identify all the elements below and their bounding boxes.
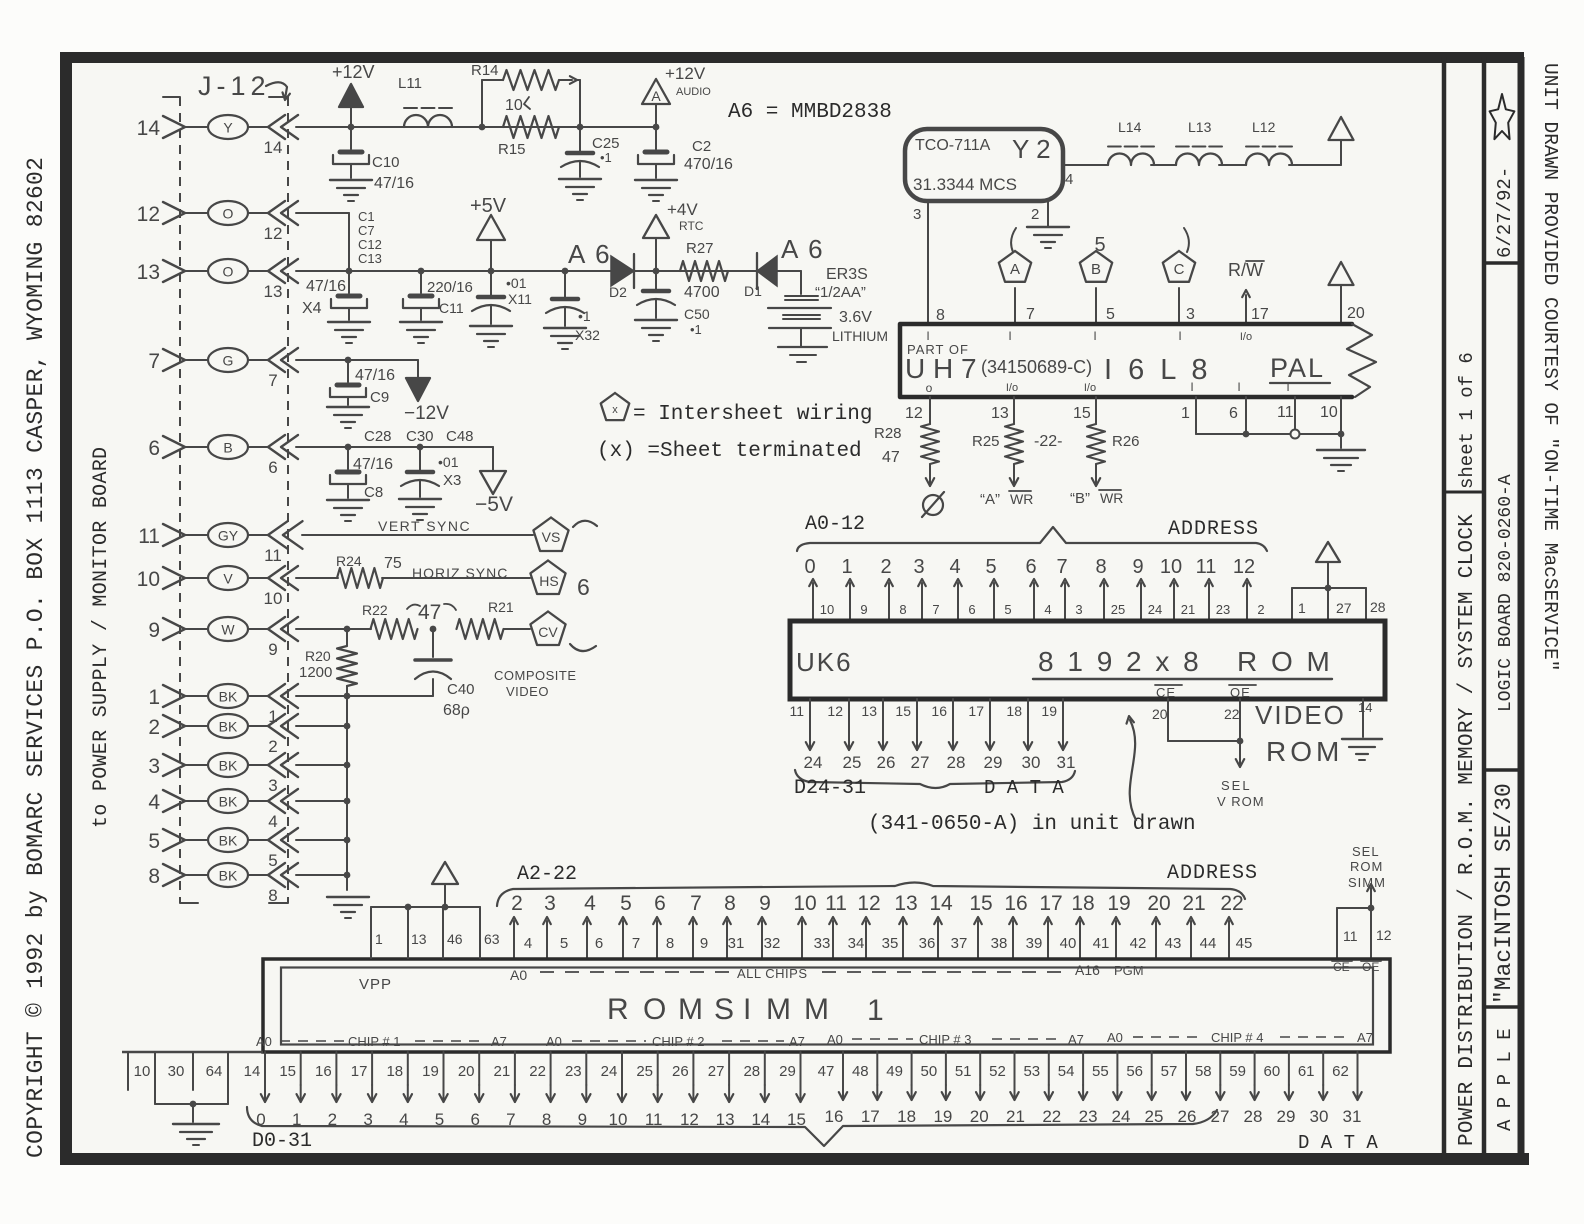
- svg-text:A0: A0: [546, 1034, 562, 1049]
- svg-text:V ROM: V ROM: [1217, 794, 1265, 809]
- svg-text:18: 18: [1006, 703, 1022, 719]
- svg-text:C30: C30: [406, 428, 434, 445]
- svg-text:23: 23: [565, 1063, 582, 1080]
- svg-text:17: 17: [1039, 892, 1062, 915]
- wire pin13 rail: [296, 270, 800, 272]
- svg-text:1200: 1200: [299, 664, 332, 681]
- ground BK bus: [327, 896, 369, 898]
- svg-text:OE: OE: [1230, 685, 1251, 700]
- svg-text:VERT SYNC: VERT SYNC: [378, 518, 471, 534]
- svg-text:38: 38: [991, 935, 1008, 952]
- svg-text:12: 12: [1376, 927, 1392, 943]
- svg-text:1: 1: [1181, 405, 1190, 422]
- svg-text:35: 35: [882, 935, 899, 952]
- svg-text:A7: A7: [789, 1034, 805, 1049]
- svg-text:21: 21: [1181, 602, 1195, 617]
- svg-text:O: O: [223, 264, 234, 280]
- capacitor C11 220/16: [418, 268, 425, 275]
- svg-text:C11: C11: [439, 300, 464, 316]
- svg-text:VIDEO: VIDEO: [1255, 700, 1346, 730]
- svg-text:A 6: A 6: [781, 234, 825, 264]
- svg-text:ROM: ROM: [1266, 736, 1343, 767]
- svg-text:4: 4: [1044, 602, 1051, 617]
- paren right: [1184, 228, 1189, 252]
- svg-text:ALL CHIPS: ALL CHIPS: [737, 966, 808, 981]
- svg-text:21: 21: [1006, 1107, 1025, 1126]
- svg-text:44: 44: [1200, 935, 1217, 952]
- power flag -12V: [417, 360, 419, 378]
- svg-text:40: 40: [1060, 935, 1077, 952]
- SIMM data pin 51: [979, 1052, 981, 1085]
- svg-text:SEL: SEL: [1221, 778, 1252, 793]
- svg-text:CV: CV: [538, 624, 558, 640]
- svg-text:BK: BK: [219, 794, 238, 810]
- svg-text:I/o: I/o: [1240, 331, 1252, 343]
- svg-text:20: 20: [1147, 892, 1170, 915]
- capacitor C40 68p: [432, 629, 434, 657]
- svg-text:4: 4: [949, 556, 960, 578]
- svg-text:R20: R20: [305, 648, 331, 664]
- ROM SIMM 1 inner box: [281, 968, 1373, 1045]
- svg-text:+12V: +12V: [665, 64, 706, 83]
- svg-text:4700: 4700: [684, 284, 720, 301]
- power flag PAL pin 20: [1329, 262, 1354, 285]
- svg-text:22: 22: [1220, 892, 1243, 915]
- svg-text:1: 1: [148, 686, 160, 709]
- svg-text:10: 10: [137, 568, 160, 591]
- svg-text:9: 9: [148, 619, 160, 642]
- svg-text:53: 53: [1023, 1063, 1040, 1080]
- phase symbol: [923, 495, 943, 515]
- svg-text:25: 25: [843, 753, 862, 772]
- intersheet pentagon HS: [530, 561, 565, 595]
- svg-text:R15: R15: [498, 141, 526, 158]
- svg-text:20: 20: [970, 1107, 989, 1126]
- svg-text:0: 0: [804, 556, 815, 578]
- svg-text:14: 14: [137, 117, 161, 140]
- svg-text:16: 16: [825, 1107, 844, 1126]
- svg-text:+12V: +12V: [332, 62, 375, 82]
- svg-text:D A T A: D A T A: [1298, 1132, 1378, 1154]
- svg-text:CHIP # 1: CHIP # 1: [348, 1034, 401, 1049]
- wire BK pin: [296, 764, 347, 766]
- svg-text:L14: L14: [1118, 119, 1142, 135]
- svg-text:COPYRIGHT © 1992 by BOMARC S: COPYRIGHT © 1992 by BOMARC SERVICES P.O.…: [23, 157, 49, 1158]
- svg-text:“1/2AA”: “1/2AA”: [815, 284, 866, 301]
- svg-text:C40: C40: [447, 681, 475, 698]
- svg-text:8: 8: [666, 935, 674, 952]
- svg-text:31: 31: [1343, 1107, 1362, 1126]
- svg-text:7: 7: [932, 602, 939, 617]
- svg-text:U H 7: U H 7: [905, 353, 977, 384]
- SIMM data pin 25: [657, 1052, 659, 1085]
- svg-text:24: 24: [804, 753, 823, 772]
- svg-text:A0: A0: [256, 1034, 272, 1049]
- capacitor X11 .01: [490, 271, 492, 295]
- svg-text:9: 9: [268, 640, 277, 659]
- arc after VS: [573, 521, 597, 527]
- svg-text:2: 2: [880, 556, 891, 578]
- star mark: [1490, 94, 1515, 139]
- svg-text:A P P L E: A P P L E: [1494, 1028, 1516, 1131]
- svg-text:56: 56: [1126, 1063, 1143, 1080]
- SIMM data pin 57: [1185, 1052, 1187, 1085]
- svg-text:25: 25: [1111, 602, 1125, 617]
- svg-text:21: 21: [1182, 892, 1205, 915]
- svg-text:11: 11: [264, 546, 282, 565]
- svg-text:18: 18: [386, 1063, 403, 1080]
- svg-text:28: 28: [743, 1063, 760, 1080]
- diode D2: [611, 256, 634, 286]
- svg-text:COMPOSITE: COMPOSITE: [494, 668, 577, 683]
- svg-text:5: 5: [620, 892, 632, 915]
- J-12 label arrow: [266, 82, 287, 99]
- svg-text:6: 6: [654, 892, 666, 915]
- svg-text:33: 33: [814, 935, 831, 952]
- svg-text:D1: D1: [744, 283, 762, 299]
- svg-text:2: 2: [511, 892, 523, 915]
- svg-text:24: 24: [601, 1063, 618, 1080]
- svg-text:37: 37: [951, 935, 968, 952]
- svg-text:8 1 9 2 x 8: 8 1 9 2 x 8: [1038, 646, 1202, 677]
- SIMM data pin 18: [407, 1052, 409, 1085]
- svg-text:26: 26: [672, 1063, 689, 1080]
- svg-text:10: 10: [793, 892, 816, 915]
- svg-text:20: 20: [458, 1063, 475, 1080]
- svg-text:ER3S: ER3S: [826, 266, 868, 283]
- SIMM data pin 50: [945, 1052, 947, 1085]
- svg-text:19: 19: [933, 1107, 952, 1126]
- power flag -5V: [492, 447, 494, 471]
- wire BK pin: [296, 839, 347, 841]
- SIMM data pin 24: [621, 1052, 623, 1085]
- svg-text:I 6 L 8: I 6 L 8: [1104, 354, 1212, 386]
- power flag above L12: [1329, 117, 1354, 140]
- SIMM data pin 19: [443, 1052, 445, 1085]
- svg-text:11: 11: [1277, 404, 1294, 421]
- svg-text:17: 17: [968, 703, 984, 719]
- paren left: [1011, 228, 1016, 252]
- SIMM data pin 49: [911, 1052, 913, 1085]
- svg-text:28: 28: [1370, 599, 1386, 615]
- svg-text:17: 17: [1251, 306, 1269, 323]
- SIMM data pin 47: [842, 1052, 844, 1085]
- svg-text:10: 10: [505, 97, 523, 114]
- svg-text:G: G: [223, 353, 234, 369]
- svg-text:“B”: “B”: [1070, 490, 1090, 507]
- svg-text:54: 54: [1058, 1063, 1075, 1080]
- svg-text:sheet 1 of 6: sheet 1 of 6: [1456, 352, 1478, 489]
- svg-text:47/16: 47/16: [355, 367, 395, 384]
- SIMM data pin 28: [764, 1052, 766, 1085]
- svg-text:WR: WR: [1100, 490, 1123, 506]
- sheet border: [62, 52, 1524, 63]
- svg-text:49: 49: [886, 1063, 903, 1080]
- svg-text:9: 9: [860, 602, 867, 617]
- svg-text:8: 8: [899, 602, 906, 617]
- svg-text:C28: C28: [364, 428, 392, 445]
- svg-text:14: 14: [244, 1063, 261, 1080]
- svg-text:27: 27: [708, 1063, 725, 1080]
- svg-text:RTC: RTC: [679, 219, 704, 233]
- SIMM data pin 14: [264, 1052, 266, 1085]
- svg-text:7: 7: [148, 350, 160, 373]
- svg-text:R22: R22: [362, 602, 388, 618]
- legend intersheet pentagon: [601, 393, 630, 420]
- svg-text:64: 64: [206, 1063, 223, 1080]
- svg-text:31: 31: [1057, 753, 1076, 772]
- svg-text:A0: A0: [827, 1032, 843, 1047]
- svg-text:6: 6: [268, 458, 277, 477]
- svg-text:R24: R24: [336, 553, 362, 569]
- PAL U H7 16L8 box: [900, 324, 1352, 397]
- svg-text:470/16: 470/16: [684, 156, 733, 173]
- SIMM data pin 29: [800, 1052, 802, 1085]
- SIMM data pin 54: [1082, 1052, 1084, 1085]
- svg-text:7: 7: [268, 371, 277, 390]
- svg-text:36: 36: [919, 935, 936, 952]
- svg-text:12: 12: [1233, 556, 1255, 578]
- svg-text:OE: OE: [1362, 960, 1379, 974]
- svg-text:59: 59: [1229, 1063, 1246, 1080]
- svg-text:GY: GY: [218, 528, 239, 544]
- SIMM data pin 23: [585, 1052, 587, 1085]
- svg-text:I: I: [1237, 380, 1240, 394]
- SIMM data pin 56: [1151, 1052, 1153, 1085]
- svg-text:16: 16: [931, 703, 947, 719]
- SIMM data pin 53: [1048, 1052, 1050, 1085]
- svg-text:52: 52: [989, 1063, 1006, 1080]
- svg-text:31: 31: [728, 935, 745, 952]
- capacitor C8 47/16: [345, 444, 352, 451]
- svg-text:18: 18: [1071, 892, 1094, 915]
- svg-text:C: C: [1174, 261, 1185, 278]
- arc after CV: [570, 644, 596, 651]
- svg-text:27: 27: [1211, 1107, 1230, 1126]
- svg-text:28: 28: [947, 753, 966, 772]
- curved arrow to ROM: [1130, 720, 1136, 820]
- svg-text:SEL: SEL: [1352, 844, 1380, 859]
- svg-text:(34150689-C): (34150689-C): [981, 357, 1092, 377]
- svg-text:23: 23: [1079, 1107, 1098, 1126]
- svg-text:D0-31: D0-31: [252, 1130, 312, 1153]
- svg-text:12: 12: [137, 203, 160, 226]
- svg-text:1: 1: [841, 556, 852, 578]
- capacitor C9 47/16: [345, 357, 352, 364]
- svg-text:C1: C1: [358, 209, 375, 224]
- svg-text:8: 8: [148, 865, 160, 888]
- svg-text:X11: X11: [508, 291, 532, 307]
- wire pin6: [296, 446, 493, 448]
- svg-text:I: I: [1190, 380, 1193, 394]
- svg-text:9: 9: [700, 935, 708, 952]
- svg-text:4: 4: [268, 812, 277, 831]
- address brace upper: [797, 527, 1267, 551]
- PAL torn edge: [1347, 324, 1376, 397]
- svg-text:R14: R14: [471, 62, 499, 79]
- svg-text:I: I: [1178, 329, 1181, 343]
- data brace D24-31: [795, 770, 1075, 788]
- SIMM data pin 27: [728, 1052, 730, 1085]
- svg-text:M: M: [678, 993, 703, 1026]
- data brace D0-31: [247, 1107, 1217, 1146]
- svg-text:24: 24: [1112, 1107, 1131, 1126]
- svg-text:CE: CE: [1156, 685, 1176, 700]
- svg-text:12: 12: [827, 703, 843, 719]
- svg-text:2: 2: [1031, 206, 1039, 223]
- svg-text:63: 63: [484, 931, 500, 947]
- svg-text:(x) =Sheet terminated: (x) =Sheet terminated: [597, 440, 862, 463]
- svg-text:31.3344 MCS: 31.3344 MCS: [913, 175, 1017, 194]
- svg-text:A7: A7: [1068, 1032, 1084, 1047]
- svg-text:LOGIC BOARD 820-0260-A: LOGIC BOARD 820-0260-A: [1496, 474, 1516, 712]
- svg-text:13: 13: [894, 892, 917, 915]
- svg-text:I/o: I/o: [1084, 382, 1096, 394]
- svg-text:22: 22: [529, 1063, 546, 1080]
- svg-text:25: 25: [636, 1063, 653, 1080]
- svg-text:62: 62: [1332, 1063, 1349, 1080]
- svg-text:BK: BK: [219, 689, 238, 705]
- svg-text:−12V: −12V: [404, 403, 449, 424]
- svg-text:28: 28: [1244, 1107, 1263, 1126]
- svg-text:A: A: [651, 88, 661, 104]
- svg-text:16: 16: [315, 1063, 332, 1080]
- svg-text:22: 22: [1224, 706, 1240, 722]
- power bracket UK6 pins 1 27 28: [1316, 542, 1340, 562]
- svg-text:O: O: [643, 993, 666, 1026]
- svg-text:3: 3: [1075, 602, 1082, 617]
- svg-text:to POWER SUPPLY / MONITOR BOAR: to POWER SUPPLY / MONITOR BOARD: [90, 447, 113, 828]
- wire L13-L12: [1219, 164, 1246, 166]
- SIMM data pin 60: [1288, 1052, 1290, 1085]
- svg-text:M: M: [766, 993, 791, 1026]
- svg-text:“A”: “A”: [980, 491, 1000, 508]
- svg-text:29: 29: [779, 1063, 796, 1080]
- intersheet pentagon B: [1080, 251, 1112, 282]
- svg-text:C50: C50: [684, 306, 710, 322]
- svg-text:220/16: 220/16: [427, 279, 473, 296]
- svg-text:BK: BK: [219, 719, 238, 735]
- svg-text:A: A: [1010, 261, 1020, 278]
- svg-text:CHIP # 2: CHIP # 2: [652, 1034, 705, 1049]
- svg-text:R25: R25: [972, 433, 1000, 450]
- svg-text:R: R: [607, 993, 629, 1026]
- svg-text:D24-31: D24-31: [794, 777, 866, 800]
- svg-text:47: 47: [418, 601, 441, 624]
- SIMM data pin 62: [1357, 1052, 1359, 1085]
- svg-text:−5V: −5V: [475, 493, 513, 516]
- svg-text:5: 5: [985, 556, 996, 578]
- capacitor C2 470/16: [655, 127, 657, 149]
- svg-text:10: 10: [264, 589, 283, 608]
- svg-text:8: 8: [936, 307, 945, 324]
- svg-text:11: 11: [1196, 556, 1217, 578]
- svg-text:R O M: R O M: [1237, 646, 1333, 677]
- svg-text:D A T A: D A T A: [984, 777, 1064, 799]
- svg-text:9: 9: [759, 892, 771, 915]
- svg-text:L13: L13: [1188, 119, 1212, 135]
- intersheet pentagon A: [999, 251, 1031, 282]
- intersheet pentagon CV: [530, 612, 565, 646]
- svg-text:A 6: A 6: [568, 239, 612, 269]
- svg-text:V: V: [223, 571, 233, 587]
- svg-text:6: 6: [1025, 556, 1036, 578]
- svg-text:14: 14: [929, 892, 953, 915]
- svg-text:5: 5: [1004, 602, 1011, 617]
- svg-text:R26: R26: [1112, 433, 1140, 450]
- svg-text:C10: C10: [372, 154, 400, 171]
- svg-text:BK: BK: [219, 868, 238, 884]
- svg-text:AUDIO: AUDIO: [676, 86, 711, 98]
- svg-text:19: 19: [422, 1063, 439, 1080]
- SIMM data pin 15: [300, 1052, 302, 1085]
- svg-text:I: I: [1093, 329, 1096, 343]
- svg-text:13: 13: [861, 703, 877, 719]
- svg-text:43: 43: [1165, 935, 1182, 952]
- svg-text:10: 10: [1160, 556, 1182, 578]
- intersheet pentagon VS: [533, 518, 568, 552]
- SIMM data pin 21: [514, 1052, 516, 1085]
- svg-text:47: 47: [818, 1063, 835, 1080]
- svg-text:R/W: R/W: [1228, 260, 1263, 280]
- svg-text:C8: C8: [364, 484, 383, 501]
- svg-text:X32: X32: [575, 327, 600, 343]
- svg-text:10: 10: [1320, 404, 1338, 421]
- svg-text:5: 5: [560, 935, 568, 952]
- svg-text:I: I: [743, 993, 751, 1026]
- svg-text:47/16: 47/16: [374, 175, 414, 192]
- svg-text:TCO-711A: TCO-711A: [915, 137, 991, 154]
- svg-text:4: 4: [1065, 171, 1073, 188]
- capacitor X32 .1: [562, 268, 569, 275]
- wire BK pin: [296, 800, 347, 802]
- svg-text:10: 10: [134, 1063, 151, 1080]
- svg-text:2: 2: [268, 737, 277, 756]
- svg-text:26: 26: [877, 753, 896, 772]
- svg-text:34: 34: [848, 935, 865, 952]
- svg-text:27: 27: [1336, 600, 1352, 616]
- svg-text:I: I: [1286, 380, 1289, 394]
- svg-text:19: 19: [1041, 703, 1057, 719]
- svg-text:O: O: [223, 206, 234, 222]
- svg-text:A16: A16: [1075, 962, 1100, 978]
- svg-text:R27: R27: [686, 240, 714, 257]
- svg-text:68ρ: 68ρ: [443, 702, 470, 719]
- svg-text:13: 13: [411, 931, 427, 947]
- svg-text:11: 11: [789, 703, 804, 719]
- capacitor C25 .1: [579, 127, 581, 151]
- svg-text:•01: •01: [506, 275, 527, 291]
- svg-text:M: M: [804, 993, 829, 1026]
- address brace lower: [497, 883, 1245, 907]
- svg-text:C48: C48: [446, 428, 474, 445]
- svg-text:ROM: ROM: [1350, 859, 1383, 874]
- svg-text:6: 6: [148, 437, 160, 460]
- svg-text:B: B: [223, 440, 232, 456]
- wire BK pin: [296, 695, 347, 697]
- intersheet pentagon C: [1163, 251, 1195, 282]
- svg-text:+4V: +4V: [667, 200, 698, 219]
- svg-text:C2: C2: [692, 138, 711, 155]
- svg-text:+5V: +5V: [470, 195, 507, 217]
- svg-text:HS: HS: [539, 573, 558, 589]
- svg-text:W: W: [221, 622, 235, 638]
- svg-text:X3: X3: [443, 472, 461, 489]
- svg-text:47: 47: [882, 449, 900, 466]
- svg-text:J-12: J-12: [198, 71, 271, 101]
- svg-text:45: 45: [1236, 935, 1253, 952]
- svg-text:Y 2: Y 2: [1012, 134, 1051, 164]
